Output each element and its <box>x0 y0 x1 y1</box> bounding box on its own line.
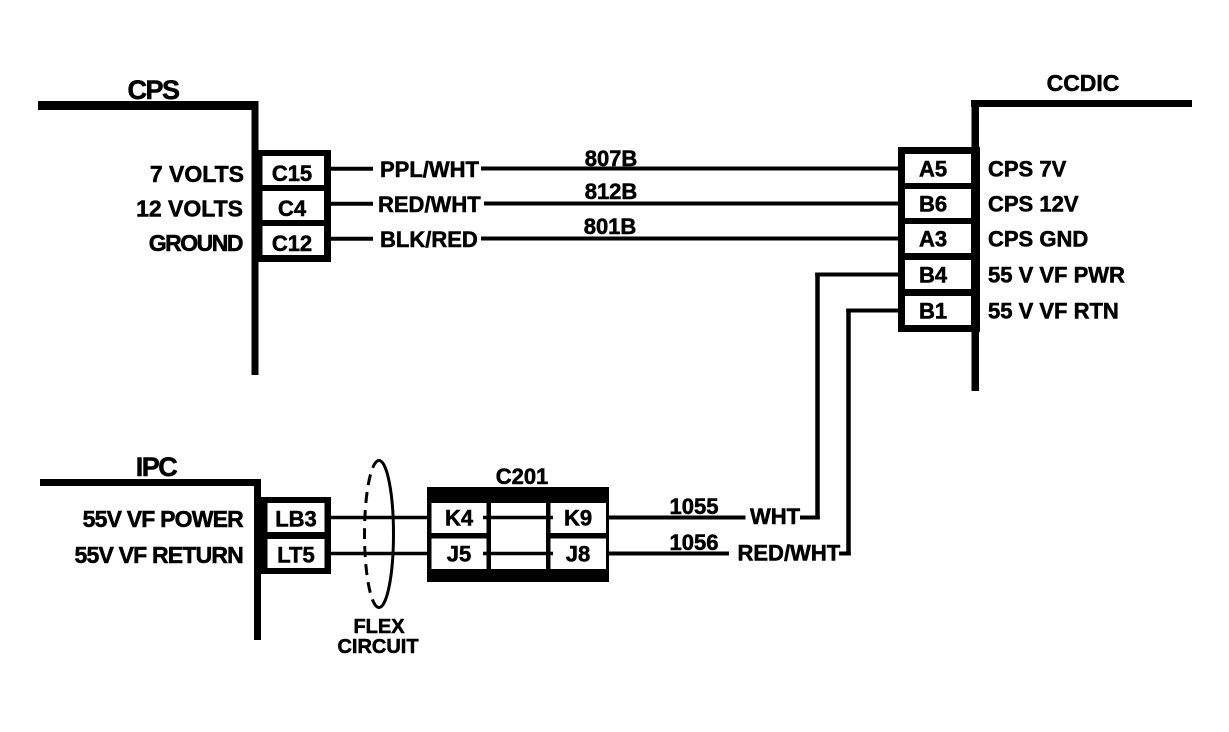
svg-text:B4: B4 <box>919 263 948 288</box>
svg-text:RED/WHT: RED/WHT <box>378 192 481 217</box>
svg-text:J8: J8 <box>566 542 590 567</box>
svg-text:WHT: WHT <box>750 504 801 529</box>
svg-text:CPS 7V: CPS 7V <box>988 157 1067 182</box>
label 55V VF RETURN <box>74 542 243 568</box>
svg-text:C4: C4 <box>278 196 307 221</box>
wire 807B segment to CCDIC A5 <box>481 167 898 171</box>
svg-text:CPS: CPS <box>127 75 179 105</box>
pin K9 label <box>564 506 592 531</box>
label 12 VOLTS <box>136 196 243 222</box>
pin B4 label <box>919 263 948 288</box>
pin C15 label <box>272 161 312 186</box>
connector IPC body vertical line <box>254 479 261 640</box>
connector CPS title label <box>127 75 179 105</box>
connector CCDIC body vertical line <box>972 100 980 391</box>
connector CPS top bar <box>38 101 254 110</box>
wire color label RED/WHT <box>378 192 481 217</box>
svg-text:GROUND: GROUND <box>149 230 243 256</box>
svg-text:LT5: LT5 <box>277 543 314 568</box>
svg-text:RED/WHT: RED/WHT <box>738 541 841 566</box>
svg-text:55V VF POWER: 55V VF POWER <box>83 506 245 532</box>
connector CPS pin block (C15/C4/C12) <box>256 150 331 262</box>
svg-text:C12: C12 <box>272 231 312 256</box>
wire through C201 row K4-K9 <box>483 516 553 520</box>
connector IPC top bar <box>40 479 258 486</box>
wire LT5 to C201 J5 <box>331 552 427 556</box>
wire stub after WHT <box>800 516 820 520</box>
wire stub from pin C4 <box>331 202 373 206</box>
svg-text:B6: B6 <box>919 192 947 217</box>
pin B6 label <box>919 192 947 217</box>
label GROUND <box>149 230 243 256</box>
connector C201 block <box>427 487 609 582</box>
label 7 VOLTS <box>150 161 244 187</box>
connector IPC pin block (LB3/LT5) <box>261 497 331 574</box>
svg-text:B1: B1 <box>919 299 947 324</box>
pin C12 label <box>272 231 312 256</box>
svg-text:7 VOLTS: 7 VOLTS <box>150 161 244 187</box>
svg-text:CPS 12V: CPS 12V <box>988 192 1079 217</box>
svg-text:12 VOLTS: 12 VOLTS <box>136 196 243 222</box>
svg-text:55V VF RETURN: 55V VF RETURN <box>74 542 243 568</box>
svg-text:CIRCUIT: CIRCUIT <box>337 636 418 658</box>
svg-text:C201: C201 <box>496 464 549 489</box>
label CPS 12V <box>988 192 1079 217</box>
svg-text:A5: A5 <box>919 157 947 182</box>
wire number label 812B <box>585 179 638 204</box>
label 55V VF POWER <box>83 506 245 532</box>
wire LB3 to C201 K4 <box>331 516 427 520</box>
svg-text:J5: J5 <box>447 542 471 567</box>
svg-text:A3: A3 <box>919 227 947 252</box>
label 55 V VF RTN <box>988 299 1119 324</box>
wire color label RED/WHT <box>738 541 841 566</box>
wire stub after RED/WHT <box>839 552 851 556</box>
svg-text:1056: 1056 <box>670 530 719 555</box>
wire color label WHT <box>750 504 801 529</box>
connector CCDIC top bar <box>971 100 1192 107</box>
wire 812B segment to CCDIC B6 <box>484 202 898 206</box>
label CIRCUIT <box>337 636 418 658</box>
connector C201 title label <box>496 464 549 489</box>
wire 1056 segment from J8 <box>609 552 729 556</box>
wire number label 1056 <box>670 530 719 555</box>
svg-text:CCDIC: CCDIC <box>1047 70 1120 96</box>
svg-text:C15: C15 <box>272 161 312 186</box>
flex circuit ellipse symbol <box>365 461 394 608</box>
label 55 V VF PWR <box>988 263 1125 288</box>
wire stub from pin C12 <box>331 237 373 241</box>
label CPS 7V <box>988 157 1067 182</box>
label CPS GND <box>988 227 1088 252</box>
pin A5 label <box>919 157 947 182</box>
svg-text:LB3: LB3 <box>275 507 317 532</box>
svg-text:K9: K9 <box>564 506 592 531</box>
svg-text:PPL/WHT: PPL/WHT <box>380 157 480 182</box>
pin J5 label <box>447 542 471 567</box>
wire vertical riser RED/WHT to B1 <box>846 309 851 556</box>
connector CPS body vertical line <box>252 101 259 375</box>
pin J8 label <box>566 542 590 567</box>
wire number label 807B <box>585 146 638 171</box>
wire horizontal into pin B1 <box>846 309 898 313</box>
wire 1055 segment from K9 <box>609 516 746 520</box>
svg-text:807B: 807B <box>585 146 638 171</box>
svg-text:812B: 812B <box>585 179 638 204</box>
pin LT5 label <box>277 543 314 568</box>
wire through C201 row J5-J8 <box>483 552 553 556</box>
svg-text:1055: 1055 <box>670 494 719 519</box>
svg-text:IPC: IPC <box>136 452 178 482</box>
pin B1 label <box>919 299 947 324</box>
pin C4 label <box>278 196 307 221</box>
svg-text:CPS GND: CPS GND <box>988 227 1088 252</box>
connector IPC title label <box>136 452 178 482</box>
svg-text:K4: K4 <box>445 506 474 531</box>
pin A3 label <box>919 227 947 252</box>
connector CCDIC pin block (A5/B6/A3/B4/B1) <box>898 147 980 332</box>
svg-text:55 V VF PWR: 55 V VF PWR <box>988 263 1125 288</box>
connector CCDIC title label <box>1047 70 1120 96</box>
wire color label BLK/RED <box>380 227 478 252</box>
svg-text:FLEX: FLEX <box>353 616 405 638</box>
wire 801B segment to CCDIC A3 <box>481 237 898 241</box>
wire number label 801B <box>584 214 637 239</box>
wire stub from pin C15 <box>331 167 373 171</box>
svg-text:801B: 801B <box>584 214 637 239</box>
pin LB3 label <box>275 507 317 532</box>
label FLEX <box>353 616 405 638</box>
pin K4 label <box>445 506 474 531</box>
wire color label PPL/WHT <box>380 157 480 182</box>
svg-text:BLK/RED: BLK/RED <box>380 227 478 252</box>
wire number label 1055 <box>670 494 719 519</box>
svg-text:55 V VF RTN: 55 V VF RTN <box>988 299 1119 324</box>
wire horizontal into pin B4 <box>815 273 898 277</box>
wire vertical riser WHT to B4 <box>815 273 820 520</box>
